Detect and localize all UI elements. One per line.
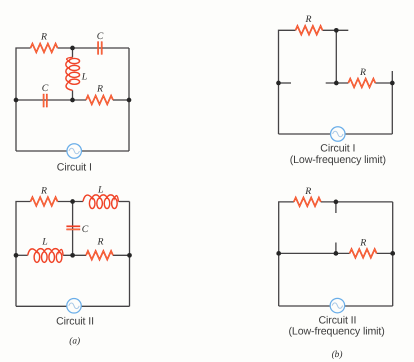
svg-text:Circuit I: Circuit I	[57, 162, 92, 174]
svg-text:Circuit I: Circuit I	[320, 143, 355, 155]
svg-text:R: R	[305, 14, 312, 25]
svg-text:(Low-frequency limit): (Low-frequency limit)	[290, 154, 386, 166]
svg-text:C: C	[42, 83, 49, 94]
svg-text:(b): (b)	[332, 350, 343, 360]
svg-text:R: R	[40, 32, 47, 43]
svg-text:R: R	[304, 186, 311, 197]
svg-text:Circuit II: Circuit II	[56, 316, 94, 328]
svg-text:R: R	[359, 67, 366, 78]
svg-text:R: R	[97, 237, 104, 248]
svg-text:(Low-frequency limit): (Low-frequency limit)	[288, 325, 384, 337]
svg-text:C: C	[97, 31, 104, 42]
svg-text:C: C	[82, 224, 89, 235]
svg-text:R: R	[359, 238, 366, 249]
svg-text:L: L	[81, 72, 87, 83]
svg-text:L: L	[97, 185, 103, 196]
svg-text:R: R	[40, 186, 47, 197]
svg-text:L: L	[41, 237, 47, 248]
svg-text:(a): (a)	[69, 337, 80, 347]
svg-text:R: R	[96, 84, 103, 95]
